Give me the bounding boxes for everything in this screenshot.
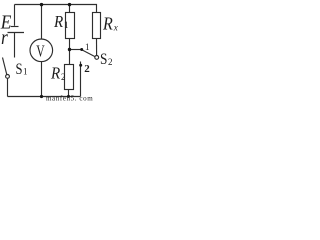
svg-text:R: R <box>50 64 61 83</box>
svg-text:2: 2 <box>108 57 113 67</box>
svg-text:manfen5. com: manfen5. com <box>46 94 93 101</box>
svg-text:2: 2 <box>61 72 66 82</box>
svg-text:R: R <box>53 12 64 31</box>
svg-text:1: 1 <box>64 20 69 30</box>
svg-text:R: R <box>102 14 113 34</box>
svg-text:x: x <box>113 23 118 33</box>
svg-text:S: S <box>16 61 23 78</box>
svg-text:V: V <box>36 41 45 60</box>
svg-text:r: r <box>1 27 8 49</box>
svg-text:1: 1 <box>23 67 28 77</box>
svg-text:2: 2 <box>84 63 90 75</box>
svg-text:S: S <box>100 51 107 68</box>
svg-text:1: 1 <box>85 42 90 52</box>
